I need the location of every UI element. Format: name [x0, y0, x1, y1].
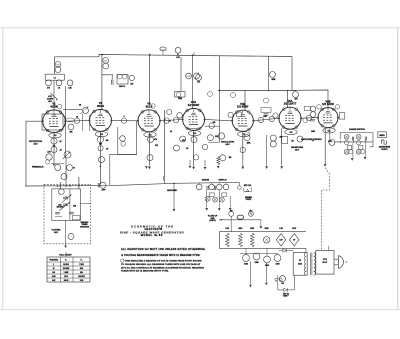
svg-text:1/2 6SN7: 1/2 6SN7: [237, 105, 249, 109]
svg-text:AMPLIFIER: AMPLIFIER: [167, 189, 177, 192]
svg-text:117V AC AND CONTROLS AT MAXIMU: 117V AC AND CONTROLS AT MAXIMUM CLOCKWIS…: [121, 267, 204, 270]
svg-text:100K: 100K: [186, 76, 192, 78]
svg-text:ADJ: ADJ: [295, 148, 299, 151]
svg-text:ALL RESISTORS 1/2 WATT 10% UNL: ALL RESISTORS 1/2 WATT 10% UNLESS RATED …: [121, 248, 206, 251]
svg-text:C12: C12: [155, 145, 158, 147]
svg-text:F₂: F₂: [81, 260, 83, 262]
svg-text:.05: .05: [186, 148, 188, 150]
svg-text:80%: 80%: [80, 268, 84, 270]
svg-text:.02: .02: [168, 121, 170, 123]
svg-text:1: 1: [53, 264, 54, 266]
svg-text:1 MHZ: 1 MHZ: [64, 272, 69, 274]
svg-text:220: 220: [106, 140, 109, 142]
svg-text:SWITCH: SWITCH: [219, 180, 227, 182]
svg-text:TO CHASSIS GROUND. ALL READING: TO CHASSIS GROUND. ALL READINGS TAKEN WI…: [121, 263, 201, 266]
svg-text:RANGE: RANGE: [202, 179, 210, 182]
svg-text:.02: .02: [76, 117, 78, 119]
svg-text:1/2 12AT7: 1/2 12AT7: [284, 102, 297, 106]
svg-text:FUNCTION: FUNCTION: [50, 260, 59, 262]
svg-text:6CB6: 6CB6: [50, 104, 57, 108]
svg-text:10 KHZ: 10 KHZ: [63, 264, 69, 266]
svg-text:R16 C9: R16 C9: [119, 86, 125, 88]
svg-text:220: 220: [99, 144, 102, 146]
svg-text:1/2 6AN8: 1/2 6AN8: [322, 102, 334, 106]
svg-text:★ VOLTAGE MEASUREMENTS TAKEN W: ★ VOLTAGE MEASUREMENTS TAKEN WITH 11 MEG…: [120, 254, 200, 257]
svg-text:(PIN 6): (PIN 6): [210, 220, 216, 222]
svg-text:22K: 22K: [104, 60, 108, 62]
svg-text:470: 470: [154, 138, 157, 141]
svg-text:PL1: PL1: [250, 210, 253, 212]
svg-text:100: 100: [52, 272, 55, 274]
svg-text:5V: 5V: [293, 240, 295, 242]
svg-text:L1: L1: [54, 78, 56, 80]
svg-text:POSTS: POSTS: [246, 199, 251, 201]
svg-text:EXT CAP: EXT CAP: [244, 184, 252, 187]
svg-text:FEEDBACK: FEEDBACK: [32, 165, 44, 168]
svg-text:.01: .01: [170, 131, 172, 133]
svg-text:100 KHZ: 100 KHZ: [63, 268, 69, 270]
svg-text:10: 10: [53, 268, 55, 270]
svg-text:ADJ: ADJ: [48, 100, 51, 103]
svg-text:6.3V: 6.3V: [280, 240, 283, 242]
svg-text:7 KHZ: 7 KHZ: [79, 264, 84, 266]
svg-text:1/2 6SN7: 1/2 6SN7: [188, 103, 200, 107]
svg-text:TAKEN WITH AN 11 MEGOHM INPUT: TAKEN WITH AN 11 MEGOHM INPUT VTVM.: [121, 270, 169, 273]
svg-text:OSCILLATOR: OSCILLATOR: [221, 140, 235, 143]
svg-text:100 M: 100 M: [64, 280, 69, 282]
svg-text:MODEL IG-82: MODEL IG-82: [141, 233, 163, 237]
svg-text:.05: .05: [106, 148, 108, 150]
svg-text:50/60 ~: 50/60 ~: [283, 296, 288, 298]
svg-text:.22: .22: [312, 140, 314, 142]
svg-text:OUTPUT: OUTPUT: [381, 149, 387, 151]
svg-text:.1: .1: [123, 116, 124, 118]
svg-text:TUNING: TUNING: [82, 224, 89, 226]
svg-text:THIS INDICATES A READING OF VO: THIS INDICATES A READING OF VOLTS TAKEN …: [125, 260, 202, 263]
svg-text:BINDING: BINDING: [245, 197, 252, 199]
svg-text:.01: .01: [59, 149, 61, 151]
svg-text:.01: .01: [58, 87, 60, 89]
svg-text:6CL6: 6CL6: [97, 104, 104, 108]
svg-text:ADJ: ADJ: [54, 231, 58, 234]
svg-text:800: 800: [80, 272, 83, 274]
svg-text:RANGE SWITCH: RANGE SWITCH: [349, 128, 365, 131]
svg-text:1000: 1000: [52, 276, 56, 278]
svg-text:15K: 15K: [56, 64, 60, 66]
svg-text:680: 680: [229, 157, 232, 159]
svg-text:C31: C31: [281, 283, 284, 285]
svg-text:220: 220: [230, 210, 233, 212]
svg-text:100 KHZ: 100 KHZ: [78, 276, 84, 278]
svg-text:T1: T1: [299, 260, 301, 262]
